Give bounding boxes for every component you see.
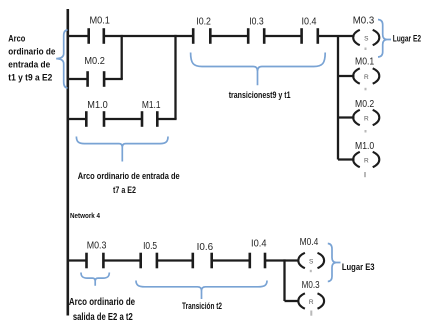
svg-text:M0.1: M0.1	[89, 15, 110, 26]
svg-text:I0.4: I0.4	[251, 239, 267, 250]
svg-text:M1.0: M1.0	[87, 100, 108, 111]
svg-text:S: S	[309, 258, 314, 265]
svg-text:I0.6: I0.6	[197, 242, 214, 253]
svg-text:salida de E2 a t2: salida de E2 a t2	[73, 311, 133, 323]
svg-text:Transición t2: Transición t2	[182, 301, 222, 312]
svg-text:I0.3: I0.3	[249, 16, 264, 27]
svg-text:M0.4: M0.4	[300, 237, 319, 248]
svg-text:I0.4: I0.4	[302, 16, 317, 27]
svg-text:t7 a E2: t7 a E2	[113, 185, 136, 196]
svg-text:Lugar E2: Lugar E2	[393, 34, 421, 44]
svg-text:M0.3: M0.3	[353, 15, 375, 26]
svg-text:M0.3: M0.3	[87, 241, 107, 252]
svg-text:entrada de: entrada de	[8, 59, 50, 70]
svg-text:M0.3: M0.3	[302, 280, 320, 291]
svg-text:t1 y t9 a E2: t1 y t9 a E2	[8, 72, 52, 83]
svg-text:Lugar E3: Lugar E3	[342, 262, 375, 273]
svg-text:I0.5: I0.5	[143, 241, 157, 252]
svg-text:M0.2: M0.2	[84, 56, 105, 67]
svg-text:M1.0: M1.0	[355, 141, 375, 152]
svg-text:M1.1: M1.1	[142, 100, 161, 111]
svg-text:R: R	[364, 157, 369, 164]
svg-text:transicionest9 y t1: transicionest9 y t1	[229, 90, 291, 101]
svg-text:Arco ordinario de: Arco ordinario de	[69, 296, 135, 308]
svg-text:M0.2: M0.2	[355, 99, 375, 110]
svg-text:Network 4: Network 4	[70, 211, 101, 220]
svg-text:I0.2: I0.2	[196, 16, 211, 27]
svg-text:ordinario de: ordinario de	[8, 47, 55, 58]
svg-text:Arco ordinario de entrada de: Arco ordinario de entrada de	[78, 171, 180, 182]
svg-text:Arco: Arco	[8, 34, 25, 45]
svg-text:S: S	[364, 35, 369, 42]
svg-text:R: R	[309, 299, 314, 306]
svg-text:M0.1: M0.1	[355, 57, 375, 68]
svg-text:R: R	[364, 115, 369, 122]
svg-text:R: R	[364, 74, 369, 81]
